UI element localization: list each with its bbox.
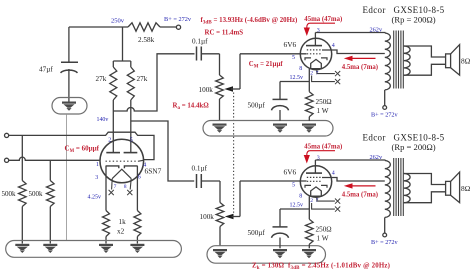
wire speaker top #2: [404, 174, 446, 185]
svg-text:100k: 100k: [199, 86, 214, 94]
svg-text:(Rp = 200Ω): (Rp = 200Ω): [392, 15, 436, 25]
pin 3 label: [95, 175, 98, 181]
label 4.5ma #1: [342, 64, 378, 71]
svg-text:6V6: 6V6: [284, 167, 297, 176]
svg-text:x2: x2: [117, 228, 125, 236]
heater x right: [127, 190, 132, 195]
svg-text:7: 7: [316, 198, 319, 204]
transformer secondary #2: [404, 174, 410, 203]
transformer Edcor #2 primary: [385, 161, 391, 234]
svg-text:1k: 1k: [119, 218, 127, 226]
resistor 2.58k: [128, 23, 177, 31]
node B+ terminal #1: [383, 106, 387, 110]
label RC: [205, 30, 244, 37]
value 500k left: [2, 190, 17, 198]
svg-text:8: 8: [299, 194, 302, 200]
capacitor 47uF: [61, 62, 79, 102]
transformer core #2: [394, 158, 404, 216]
label B+ 272v #2: [371, 239, 398, 246]
svg-text:8Ω: 8Ω: [461, 57, 471, 66]
svg-text:12.5v: 12.5v: [290, 202, 304, 208]
wire screen #1: [322, 50, 385, 54]
svg-text:0.1µf: 0.1µf: [192, 38, 208, 46]
pin 5 label #2: [292, 182, 295, 188]
ground 500k right: [43, 244, 57, 253]
pin 4 label #1: [332, 43, 335, 49]
ground bus left: [6, 241, 182, 258]
potentiometer 100k ch1: [216, 75, 224, 121]
svg-text:4.5ma (7ma): 4.5ma (7ma): [342, 64, 378, 71]
svg-text:1 W: 1 W: [317, 235, 329, 243]
svg-text:4.25v: 4.25v: [88, 195, 102, 201]
tube 6V6 #1: [300, 33, 340, 92]
svg-text:250Ω: 250Ω: [316, 98, 332, 106]
node 140v label: [97, 117, 109, 123]
wiper arrow ch1: [224, 54, 306, 92]
value 0.1uF ch1: [192, 38, 208, 46]
potentiometer 100k ch2: [216, 203, 224, 246]
svg-text:2: 2: [108, 137, 111, 143]
label CM 60uuf: [65, 145, 100, 155]
node B+ = 272v label: [164, 16, 192, 23]
value 100k ch1: [199, 86, 214, 94]
wire plate #1: [315, 32, 385, 34]
value 27k left: [96, 75, 107, 83]
svg-text:0.1µf: 0.1µf: [192, 164, 208, 172]
pin 3 label #2: [317, 155, 320, 161]
label 8ohm #1: [461, 57, 471, 66]
pin 1 label: [96, 162, 99, 168]
wire screen #2: [322, 178, 385, 182]
svg-text:B+ = 272v: B+ = 272v: [371, 111, 398, 118]
svg-text:2: 2: [310, 71, 313, 77]
label Rp #1: [392, 15, 436, 25]
ground bus middle: [203, 121, 333, 137]
tube 6SN7: [100, 139, 144, 190]
resistor 27k left: [110, 67, 117, 153]
label 6V6 #2: [284, 167, 297, 176]
svg-text:3: 3: [95, 175, 98, 181]
label 6SN7: [145, 167, 162, 176]
input jack 2: [5, 158, 9, 162]
wire 250v rail: [69, 27, 128, 62]
wire speaker top #1: [404, 46, 446, 57]
pin 5 label: [130, 137, 133, 143]
node 12.5v label #1: [290, 75, 304, 81]
svg-text:1: 1: [96, 162, 99, 168]
label Zk f3dB bottom: [252, 262, 390, 271]
node B+ terminal top: [176, 25, 180, 29]
resistor 1k left: [103, 166, 110, 244]
svg-text:27k: 27k: [137, 75, 148, 83]
arrow 4.5ma #1: [344, 56, 376, 61]
pin 2 7 labels #2: [310, 198, 318, 204]
ground 250ohm ch1: [302, 124, 316, 133]
label 6V6 #1: [284, 40, 297, 49]
heater x left: [109, 190, 114, 195]
svg-text:12.5v: 12.5v: [290, 75, 304, 81]
resistor 250ohm #1: [306, 92, 314, 121]
svg-text:250Ω: 250Ω: [316, 226, 332, 234]
svg-text:2.58k: 2.58k: [138, 36, 155, 44]
capacitor 0.1uF ch2: [197, 174, 221, 203]
transformer secondary #1: [404, 46, 410, 75]
wire input 2: [9, 157, 101, 160]
capacitor 0.1uF ch1: [197, 47, 220, 76]
label B+ 272v #1: [371, 111, 398, 118]
pin 4 label: [143, 162, 146, 168]
svg-text:8Ω: 8Ω: [461, 184, 471, 193]
svg-text:500µf: 500µf: [248, 102, 266, 110]
svg-text:5: 5: [292, 55, 295, 61]
value 47uF: [39, 66, 53, 74]
gang link dotted: [233, 93, 235, 215]
svg-text:500µf: 500µf: [248, 229, 266, 237]
ground 1k right: [130, 244, 144, 253]
svg-text:140v: 140v: [97, 117, 109, 123]
label f3dB top: [201, 17, 298, 26]
label 8ohm #2: [461, 184, 471, 193]
speaker 8ohm #2: [446, 172, 460, 203]
value 250ohm #1: [316, 98, 332, 115]
svg-text:262v: 262v: [370, 27, 383, 34]
resistor 500k right: [47, 160, 55, 243]
label Edcor #1: [363, 5, 445, 15]
wire input 1: [9, 132, 154, 159]
arrow 45ma #2: [304, 151, 335, 164]
resistor 250ohm #2: [306, 219, 314, 248]
node B+ terminal #2: [383, 233, 387, 237]
svg-text:RC = 11.4mS: RC = 11.4mS: [205, 30, 244, 37]
pin 2 7 labels #1: [310, 71, 318, 77]
wire plate #2: [315, 159, 385, 161]
node 4.25v label: [88, 195, 102, 201]
svg-text:B+ = 272v: B+ = 272v: [371, 239, 398, 246]
pin 2 label: [108, 137, 111, 143]
transformer core #1: [394, 31, 404, 89]
ground 500uF ch1: [273, 124, 287, 133]
svg-text:2: 2: [310, 198, 313, 204]
resistor 27k right: [127, 67, 134, 153]
ground bus right: [207, 246, 326, 264]
value 27k right: [137, 75, 148, 83]
svg-text:6SN7: 6SN7: [145, 167, 162, 176]
node 262v label #1: [370, 27, 383, 34]
label Edcor #2: [363, 133, 445, 143]
capacitor 500uF #1: [272, 82, 289, 121]
resistor 1k right: [134, 166, 141, 244]
capacitor 500uF #2: [272, 209, 289, 248]
svg-text:4: 4: [332, 43, 335, 49]
node 12.5v label #2: [290, 202, 304, 208]
tube 6V6 #2: [300, 160, 340, 219]
svg-text:(Rp = 200Ω): (Rp = 200Ω): [392, 142, 436, 152]
svg-text:500k: 500k: [29, 190, 44, 198]
value 250ohm #2: [316, 226, 332, 243]
pin 3 label #1: [317, 28, 320, 34]
value 1k x2: [117, 218, 126, 236]
svg-text:47µf: 47µf: [39, 66, 53, 74]
ground 1k left: [99, 244, 113, 253]
svg-text:5: 5: [130, 137, 133, 143]
arrow 45ma #1: [304, 23, 335, 36]
value 0.1uF ch2: [192, 164, 208, 172]
node 262v label #2: [370, 154, 383, 161]
value 500uF #2: [248, 229, 266, 237]
label CM 21uuf: [249, 61, 284, 70]
svg-text:8: 8: [124, 184, 127, 190]
svg-text:B+ = 272v: B+ = 272v: [164, 16, 192, 23]
value 500k right: [29, 190, 44, 198]
svg-text:45ma (47ma): 45ma (47ma): [304, 16, 342, 23]
wire cathode junction #2: [280, 208, 309, 210]
svg-text:4: 4: [332, 171, 335, 177]
transformer Edcor #1 primary: [385, 33, 391, 106]
label Ra: [173, 103, 210, 112]
wire rail drop: [113, 27, 131, 67]
svg-text:262v: 262v: [370, 154, 383, 161]
ground pot ch1: [213, 124, 227, 133]
label 4.5ma #2: [342, 192, 378, 199]
svg-text:7: 7: [114, 184, 117, 190]
label 45ma #1: [304, 16, 342, 23]
ground 250ohm ch2: [302, 249, 316, 258]
svg-text:100k: 100k: [200, 213, 215, 221]
svg-text:8: 8: [299, 66, 302, 72]
pin 4 label #2: [332, 171, 335, 177]
value 500uF #1: [248, 102, 266, 110]
svg-text:45ma (47ma): 45ma (47ma): [304, 144, 342, 151]
pin 7 label: [114, 184, 117, 190]
wire speaker bottom #2: [404, 192, 446, 203]
label 45ma #2: [304, 144, 342, 151]
svg-text:6V6: 6V6: [284, 40, 297, 49]
wire plate2 to C2: [131, 121, 194, 181]
svg-text:Edcor GXSE10-8-5: Edcor GXSE10-8-5: [363, 133, 445, 143]
value 2.58k: [138, 36, 155, 44]
svg-text:27k: 27k: [96, 75, 107, 83]
arrow 4.5ma #2: [344, 183, 376, 188]
svg-text:500k: 500k: [2, 190, 17, 198]
pin 8 label #2: [299, 194, 302, 200]
svg-text:Edcor GXSE10-8-5: Edcor GXSE10-8-5: [363, 5, 445, 15]
pin 8 label #1: [299, 66, 302, 72]
pin 5 label #1: [292, 55, 295, 61]
wiper arrow ch2: [225, 181, 307, 219]
label Rp #2: [392, 142, 436, 152]
ground 500k left: [15, 244, 29, 253]
svg-text:250v: 250v: [111, 18, 125, 25]
speaker 8ohm #1: [446, 45, 460, 76]
pin 6 label: [138, 175, 141, 181]
svg-text:1 W: 1 W: [317, 107, 329, 115]
ground 47uF: [52, 98, 87, 115]
value 100k ch2: [200, 213, 215, 221]
wire cathode junction #1: [280, 81, 309, 83]
svg-text:6: 6: [138, 175, 141, 181]
resistor 500k left: [19, 135, 27, 243]
ground pot ch2: [213, 249, 227, 258]
svg-text:5: 5: [292, 182, 295, 188]
pin 8 label: [124, 184, 127, 190]
wire speaker bottom #1: [404, 64, 446, 75]
wire chassis link: [66, 114, 68, 241]
input jack 1: [5, 133, 9, 137]
svg-text:4.5ma (7ma): 4.5ma (7ma): [342, 192, 378, 199]
ground 500uF ch2: [273, 249, 287, 258]
svg-text:7: 7: [316, 71, 319, 77]
wire plate1 to C1: [113, 54, 194, 111]
node 250v label: [111, 18, 125, 25]
